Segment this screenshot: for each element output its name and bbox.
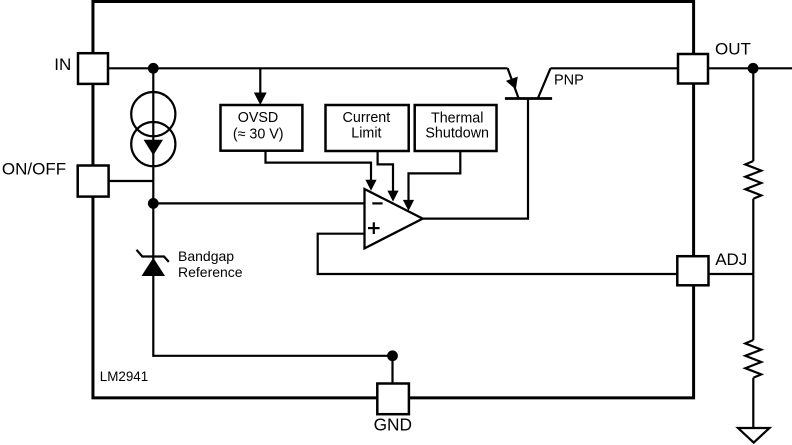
svg-text:OVSD: OVSD: [238, 110, 279, 126]
svg-text:PNP: PNP: [554, 72, 584, 88]
svg-text:(≈ 30 V): (≈ 30 V): [233, 126, 284, 142]
svg-text:Current: Current: [343, 110, 391, 126]
svg-text:Shutdown: Shutdown: [425, 126, 489, 142]
svg-text:OUT: OUT: [715, 40, 751, 59]
svg-text:ADJ: ADJ: [715, 250, 747, 269]
svg-text:GND: GND: [374, 415, 412, 435]
svg-text:Reference: Reference: [178, 264, 243, 280]
svg-text:IN: IN: [54, 55, 71, 74]
svg-text:Limit: Limit: [351, 125, 381, 141]
svg-text:Bandgap: Bandgap: [178, 248, 234, 264]
svg-text:LM2941: LM2941: [100, 369, 148, 384]
svg-text:Thermal: Thermal: [431, 110, 483, 126]
svg-text:ON/OFF: ON/OFF: [2, 159, 66, 178]
